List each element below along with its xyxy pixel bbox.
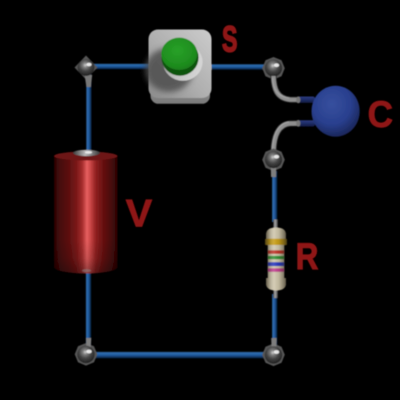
capacitor C sphere (312, 86, 360, 137)
svg-text:R: R (296, 235, 319, 277)
wire top-left horizontal (91, 64, 152, 70)
capacitor C leads (273, 76, 300, 151)
wire right upper vertical (node to resistor) (272, 171, 277, 222)
wire bottom horizontal (92, 352, 268, 359)
node top-right (262, 57, 285, 80)
svg-text:V: V (126, 192, 153, 235)
node top-left (75, 56, 98, 88)
node bottom-left (75, 338, 98, 366)
wire right lower vertical (resistor to node) (272, 294, 277, 349)
wire left upper vertical (86, 73, 91, 156)
node mid-right (262, 149, 285, 178)
svg-text:C: C (368, 93, 393, 135)
wire top-right horizontal (209, 64, 267, 70)
battery V body (54, 150, 118, 274)
resistor R (265, 220, 287, 299)
node bottom-right (262, 338, 285, 366)
push-button switch S (145, 30, 212, 104)
capacitor C tips (296, 96, 315, 126)
wire left lower vertical (86, 265, 91, 349)
svg-text:S: S (222, 19, 237, 60)
